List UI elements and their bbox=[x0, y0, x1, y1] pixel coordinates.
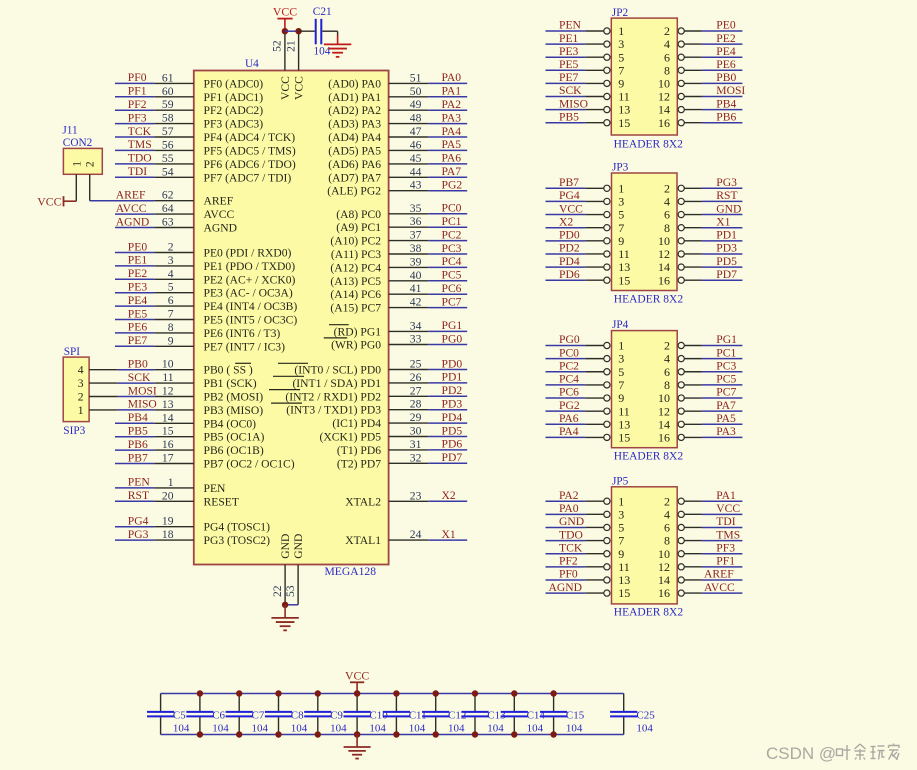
svg-text:PA0: PA0 bbox=[442, 71, 462, 84]
capacitor C6 104 bbox=[186, 694, 229, 735]
svg-text:PB6 (OC1B): PB6 (OC1B) bbox=[204, 444, 264, 457]
U4 pin 32 ((T2) PD7) bbox=[337, 451, 428, 470]
svg-text:41: 41 bbox=[410, 282, 422, 295]
svg-text:PB0: PB0 bbox=[716, 71, 736, 84]
svg-text:10: 10 bbox=[658, 391, 670, 405]
junction dot top of C15 bbox=[550, 690, 556, 696]
svg-text:PE5: PE5 bbox=[559, 58, 579, 71]
JP3 pin 5 bbox=[585, 208, 624, 222]
wire and net label PE7 at JP2 pin 9 bbox=[546, 71, 586, 84]
svg-text:GND: GND bbox=[716, 202, 741, 215]
svg-text:1: 1 bbox=[168, 476, 174, 489]
svg-text:9: 9 bbox=[618, 391, 624, 405]
U4 pin 47 ((AD4) PA4) bbox=[328, 125, 428, 144]
svg-text:PF2 (ADC2): PF2 (ADC2) bbox=[204, 104, 264, 117]
wire and net label TDI bbox=[115, 165, 154, 178]
wire and net label PB6 bbox=[115, 438, 154, 451]
junction dot top of C10 bbox=[354, 690, 360, 696]
wire and net label PB5 bbox=[115, 425, 154, 438]
svg-text:19: 19 bbox=[162, 515, 174, 528]
svg-text:1: 1 bbox=[618, 181, 624, 195]
JP5 pin 16 bbox=[658, 586, 702, 600]
svg-text:PEN: PEN bbox=[128, 476, 151, 489]
svg-text:PC5: PC5 bbox=[442, 269, 462, 282]
svg-text:PB4 (OC0): PB4 (OC0) bbox=[204, 417, 257, 430]
junction dot top of C11 bbox=[393, 690, 399, 696]
svg-text:(A11) PC3: (A11) PC3 bbox=[331, 248, 381, 261]
svg-text:14: 14 bbox=[162, 411, 174, 424]
svg-text:C6: C6 bbox=[212, 709, 225, 721]
JP2 pin 3 bbox=[585, 37, 624, 51]
svg-text:PG4: PG4 bbox=[559, 189, 580, 202]
wire and net label MISO at JP2 pin 13 bbox=[546, 97, 589, 110]
svg-text:3: 3 bbox=[78, 377, 84, 390]
JP5 pin 10 bbox=[658, 547, 702, 561]
wire and net label PE0 bbox=[115, 240, 154, 253]
wire and net label PA6 at JP4 pin 13 bbox=[546, 412, 586, 425]
junction dot bottom of C11 bbox=[393, 731, 399, 737]
svg-text:5: 5 bbox=[168, 281, 174, 294]
svg-text:(AD2) PA2: (AD2) PA2 bbox=[328, 104, 381, 117]
U4 pin 44 ((AD7) PA7) bbox=[328, 165, 428, 184]
U4 pin 27 ((INT2 / RXD1) PD2) bbox=[285, 384, 428, 403]
svg-text:7: 7 bbox=[618, 378, 624, 392]
svg-text:JP5: JP5 bbox=[612, 475, 629, 487]
U4 pin 31 ((T1) PD6) bbox=[337, 438, 428, 457]
junction dot top of C12 bbox=[433, 690, 439, 696]
U4 pin 8 (PE6 (INT6 / T3)) bbox=[154, 321, 280, 340]
svg-text:PB4: PB4 bbox=[128, 411, 148, 424]
junction dot top of C14 bbox=[511, 690, 517, 696]
JP3 pin 10 bbox=[658, 234, 702, 248]
svg-text:RST: RST bbox=[716, 189, 737, 202]
JP5 pin 14 bbox=[658, 573, 702, 587]
JP3 pin 13 bbox=[585, 260, 630, 274]
capacitor C21 bbox=[313, 6, 332, 58]
svg-text:15: 15 bbox=[618, 586, 630, 600]
wire and net label PB4 at JP2 pin 14 bbox=[702, 97, 743, 110]
JP4 pin 13 bbox=[585, 417, 630, 431]
svg-text:6: 6 bbox=[168, 294, 174, 307]
JP2 pin 5 bbox=[585, 50, 624, 64]
svg-text:PE6: PE6 bbox=[128, 321, 148, 334]
svg-text:PC1: PC1 bbox=[442, 215, 462, 228]
svg-text:SCK: SCK bbox=[128, 371, 151, 384]
J11 pin 1 bbox=[70, 161, 83, 202]
wire and net label PF0 at JP5 pin 13 bbox=[546, 568, 586, 581]
U4 pin 36 ((A9) PC1) bbox=[336, 215, 428, 234]
svg-text:15: 15 bbox=[162, 425, 174, 438]
svg-text:(RD) PG1: (RD) PG1 bbox=[334, 325, 382, 338]
svg-text:PF1: PF1 bbox=[716, 555, 735, 568]
svg-text:PG4 (TOSC1): PG4 (TOSC1) bbox=[204, 521, 271, 534]
svg-text:PC7: PC7 bbox=[716, 386, 736, 399]
svg-text:JP3: JP3 bbox=[612, 161, 629, 173]
svg-text:52: 52 bbox=[271, 40, 284, 52]
svg-text:PD2: PD2 bbox=[559, 242, 580, 255]
wire and net label TDO at JP5 pin 7 bbox=[546, 528, 586, 541]
wire and net label TDO bbox=[115, 152, 154, 165]
JP4 pin 2 bbox=[664, 339, 702, 353]
wire and net label PA3 bbox=[428, 111, 467, 124]
svg-text:MOSI: MOSI bbox=[128, 384, 157, 397]
svg-text:PE3 (AC- / OC3A): PE3 (AC- / OC3A) bbox=[204, 287, 293, 300]
junction dot top of C7 bbox=[236, 690, 242, 696]
svg-text:12: 12 bbox=[162, 385, 174, 398]
svg-text:PF1 (ADC1): PF1 (ADC1) bbox=[204, 91, 264, 104]
JP5 pin 3 bbox=[585, 507, 624, 521]
svg-text:PA6: PA6 bbox=[559, 412, 579, 425]
overline for SS on PB0 bbox=[235, 362, 251, 364]
svg-text:MISO: MISO bbox=[128, 398, 157, 411]
wire and net label PE2 bbox=[115, 267, 154, 280]
svg-text:(INT0 / SCL) PD0: (INT0 / SCL) PD0 bbox=[294, 364, 381, 377]
svg-text:1: 1 bbox=[618, 24, 624, 38]
svg-text:16: 16 bbox=[658, 273, 670, 287]
JP5 pin 15 bbox=[585, 586, 630, 600]
wire and net label PB6 at JP2 pin 16 bbox=[702, 110, 743, 123]
wire and net label PA7 bbox=[428, 165, 467, 178]
junction dot pin21 bbox=[295, 28, 301, 34]
U4 pin 2 (PE0 (PDI / RXD0)) bbox=[154, 241, 291, 260]
wire and net label GND at JP3 pin 6 bbox=[702, 202, 743, 215]
U4 pin 23 (XTAL2) bbox=[345, 489, 428, 508]
svg-text:37: 37 bbox=[410, 229, 422, 242]
wire and net label PA4 at JP4 pin 15 bbox=[546, 425, 586, 438]
svg-text:PC3: PC3 bbox=[716, 359, 736, 372]
junction dot bottom of C9 bbox=[315, 731, 321, 737]
svg-text:49: 49 bbox=[410, 98, 422, 111]
svg-text:6: 6 bbox=[664, 365, 670, 379]
svg-text:24: 24 bbox=[410, 528, 422, 541]
wire and net label PD6 bbox=[428, 438, 467, 451]
svg-text:104: 104 bbox=[487, 723, 504, 735]
wire and net label PE4 bbox=[115, 294, 154, 307]
svg-text:104: 104 bbox=[330, 723, 347, 735]
svg-text:PC6: PC6 bbox=[442, 282, 462, 295]
U4 pin 10 (PB0 ( SS )) bbox=[154, 358, 253, 377]
svg-text:PD7: PD7 bbox=[716, 268, 737, 281]
junction dot bottom of C10 bbox=[354, 731, 360, 737]
svg-text:10: 10 bbox=[658, 547, 670, 561]
JP3 pin 1 bbox=[585, 181, 624, 195]
wire and net label PD1 bbox=[428, 371, 467, 384]
U4 pin 13 (PB3 (MISO)) bbox=[154, 398, 263, 417]
U4 pin 46 ((AD5) PA5) bbox=[328, 138, 428, 157]
svg-text:TMS: TMS bbox=[128, 138, 152, 151]
svg-text:PF5 (ADC5 / TMS): PF5 (ADC5 / TMS) bbox=[204, 144, 296, 157]
svg-text:23: 23 bbox=[410, 489, 422, 502]
svg-text:10: 10 bbox=[162, 358, 174, 371]
U4 pin 4 (PE2 (AC+ / XCK0)) bbox=[154, 267, 295, 286]
U4 pin 57 (PF4 (ADC4 / TCK)) bbox=[154, 125, 295, 144]
ground symbol below U4 bbox=[271, 605, 298, 631]
wire and net label PF1 bbox=[115, 85, 154, 98]
watermark CSDN bbox=[766, 744, 899, 764]
JP4 pin 4 bbox=[664, 352, 702, 366]
wire and net label AREF bbox=[90, 189, 155, 202]
overline INT0 bbox=[278, 362, 308, 364]
svg-text:58: 58 bbox=[162, 112, 174, 125]
svg-text:AVCC: AVCC bbox=[704, 581, 735, 594]
svg-text:PG1: PG1 bbox=[716, 333, 737, 346]
wire and net label X1 at JP3 pin 8 bbox=[702, 215, 743, 228]
svg-text:J11: J11 bbox=[62, 125, 77, 137]
wire and net label PE5 bbox=[115, 307, 154, 320]
connector JP5 HEADER 8X2 body bbox=[612, 487, 678, 604]
svg-text:20: 20 bbox=[162, 489, 174, 502]
svg-text:PEN: PEN bbox=[559, 19, 582, 32]
svg-text:45: 45 bbox=[410, 152, 422, 165]
svg-text:14: 14 bbox=[658, 260, 670, 274]
svg-text:PA3: PA3 bbox=[716, 425, 736, 438]
svg-text:PA7: PA7 bbox=[442, 165, 462, 178]
svg-text:14: 14 bbox=[658, 573, 670, 587]
svg-text:PB7: PB7 bbox=[128, 451, 148, 464]
U4 pin 22 (GND) vertical bbox=[271, 534, 292, 605]
svg-text:PA5: PA5 bbox=[716, 412, 736, 425]
U4 pin 48 ((AD3) PA3) bbox=[328, 112, 428, 131]
JP3 pin 11 bbox=[585, 247, 630, 261]
svg-text:2: 2 bbox=[664, 339, 670, 353]
wire and net label PE1 at JP2 pin 3 bbox=[546, 32, 586, 45]
svg-text:SPI: SPI bbox=[64, 346, 81, 358]
svg-text:8: 8 bbox=[664, 63, 670, 77]
svg-text:56: 56 bbox=[162, 138, 174, 151]
svg-text:PD7: PD7 bbox=[442, 451, 463, 464]
svg-text:28: 28 bbox=[410, 398, 422, 411]
svg-text:12: 12 bbox=[658, 560, 670, 574]
svg-text:PG2: PG2 bbox=[442, 179, 463, 192]
wire and net label PC5 bbox=[428, 269, 467, 282]
connector J11 CON2 body bbox=[63, 148, 102, 174]
svg-text:26: 26 bbox=[410, 371, 422, 384]
junction dot VCC into bus bbox=[354, 690, 360, 696]
JP5 pin 2 bbox=[664, 494, 702, 508]
U4 pin 9 (PE7 (INT7 / IC3)) bbox=[154, 334, 285, 353]
junction dot bottom of C13 bbox=[472, 731, 478, 737]
wire and net label AREF at JP5 pin 14 bbox=[702, 568, 743, 581]
svg-text:PG0: PG0 bbox=[559, 333, 580, 346]
svg-text:PE4 (INT4 / OC3B): PE4 (INT4 / OC3B) bbox=[204, 300, 298, 313]
connector JP2 HEADER 8X2 body bbox=[611, 18, 677, 135]
wire and net label TMS bbox=[115, 138, 154, 151]
svg-text:PE7: PE7 bbox=[559, 71, 579, 84]
svg-text:SCK: SCK bbox=[559, 84, 582, 97]
svg-text:30: 30 bbox=[410, 425, 422, 438]
U4 pin 14 (PB4 (OC0)) bbox=[154, 411, 256, 430]
svg-text:(WR) PG0: (WR) PG0 bbox=[331, 339, 381, 352]
svg-text:50: 50 bbox=[410, 85, 422, 98]
wire and net label PA7 at JP4 pin 12 bbox=[702, 399, 743, 412]
wire and net label PC6 at JP4 pin 9 bbox=[546, 386, 586, 399]
svg-text:5: 5 bbox=[618, 208, 624, 222]
wire and net label MOSI bbox=[118, 384, 157, 397]
wire and net label PD0 at JP3 pin 9 bbox=[546, 229, 586, 242]
svg-text:104: 104 bbox=[369, 723, 386, 735]
svg-text:16: 16 bbox=[658, 431, 670, 445]
svg-text:7: 7 bbox=[618, 63, 624, 77]
svg-text:16: 16 bbox=[658, 586, 670, 600]
svg-text:55: 55 bbox=[162, 152, 174, 165]
svg-text:PB5 (OC1A): PB5 (OC1A) bbox=[204, 431, 265, 444]
svg-text:PE2: PE2 bbox=[128, 267, 148, 280]
wire and net label MOSI at JP2 pin 12 bbox=[702, 84, 746, 97]
svg-text:13: 13 bbox=[618, 573, 630, 587]
svg-text:PE6 (INT6 / T3): PE6 (INT6 / T3) bbox=[204, 327, 281, 340]
svg-text:104: 104 bbox=[527, 723, 544, 735]
svg-text:2: 2 bbox=[664, 494, 670, 508]
svg-text:PE1: PE1 bbox=[559, 32, 579, 45]
svg-text:C25: C25 bbox=[636, 709, 655, 721]
wire and net label PB4 bbox=[115, 411, 154, 424]
capacitor C13 104 bbox=[461, 694, 506, 735]
wire and net label PE4 at JP2 pin 6 bbox=[702, 45, 743, 58]
wire pin52 to pin21 bbox=[285, 30, 299, 32]
svg-text:62: 62 bbox=[162, 189, 174, 202]
wire and net label PD1 at JP3 pin 10 bbox=[702, 229, 743, 242]
JP5 pin 11 bbox=[585, 560, 630, 574]
svg-text:3: 3 bbox=[618, 352, 624, 366]
svg-text:7: 7 bbox=[618, 534, 624, 548]
svg-text:PE2: PE2 bbox=[716, 32, 736, 45]
wire and net label PG4 bbox=[115, 515, 154, 528]
JP4 pin 5 bbox=[585, 365, 624, 379]
U4 pin 30 ((XCK1) PD5) bbox=[319, 425, 428, 444]
U4 pin 34 ((RD) PG1) bbox=[334, 319, 429, 338]
svg-text:PE0: PE0 bbox=[128, 240, 148, 253]
svg-text:2: 2 bbox=[664, 181, 670, 195]
svg-text:10: 10 bbox=[658, 234, 670, 248]
svg-text:10: 10 bbox=[658, 77, 670, 91]
svg-text:AREF: AREF bbox=[116, 189, 146, 202]
svg-text:104: 104 bbox=[566, 723, 583, 735]
JP2 pin 8 bbox=[664, 63, 702, 77]
svg-text:8: 8 bbox=[664, 378, 670, 392]
JP3 pin 14 bbox=[658, 260, 702, 274]
svg-text:(INT2 / RXD1) PD2: (INT2 / RXD1) PD2 bbox=[285, 390, 381, 403]
U4 pin 28 ((INT3 / TXD1) PD3) bbox=[286, 398, 428, 417]
svg-text:PD5: PD5 bbox=[442, 424, 463, 437]
wire and net label PD4 bbox=[428, 411, 467, 424]
svg-text:(A9) PC1: (A9) PC1 bbox=[336, 221, 381, 234]
svg-text:13: 13 bbox=[618, 417, 630, 431]
svg-text:AVCC: AVCC bbox=[116, 202, 147, 215]
wire and net label PD4 at JP3 pin 13 bbox=[546, 255, 586, 268]
wire and net label PB0 bbox=[118, 358, 154, 371]
svg-text:6: 6 bbox=[664, 521, 670, 535]
svg-text:5: 5 bbox=[618, 365, 624, 379]
svg-text:HEADER 8X2: HEADER 8X2 bbox=[614, 451, 684, 463]
U4 pin 6 (PE4 (INT4 / OC3B)) bbox=[154, 294, 297, 313]
svg-text:(AD1) PA1: (AD1) PA1 bbox=[328, 91, 381, 104]
U4 pin 55 (PF6 (ADC6 / TDO)) bbox=[154, 152, 296, 171]
svg-text:(IC1) PD4: (IC1) PD4 bbox=[332, 417, 381, 430]
U4 pin 45 ((AD6) PA6) bbox=[328, 152, 428, 171]
svg-text:PB6: PB6 bbox=[128, 438, 148, 451]
svg-text:PB1 (SCK): PB1 (SCK) bbox=[204, 377, 257, 390]
svg-text:PF0: PF0 bbox=[128, 71, 147, 84]
wire and net label PD6 at JP3 pin 15 bbox=[546, 268, 586, 281]
wire and net label PC7 at JP4 pin 10 bbox=[702, 386, 743, 399]
wire and net label SCK bbox=[118, 371, 154, 384]
svg-text:(AD0) PA0: (AD0) PA0 bbox=[328, 77, 381, 90]
svg-text:4: 4 bbox=[168, 267, 174, 280]
svg-text:(T2) PD7: (T2) PD7 bbox=[337, 457, 381, 470]
svg-text:C5: C5 bbox=[173, 709, 186, 721]
wire and net label PE1 bbox=[115, 254, 154, 267]
svg-text:(ALE) PG2: (ALE) PG2 bbox=[327, 185, 381, 198]
svg-text:MISO: MISO bbox=[559, 97, 588, 110]
svg-text:1: 1 bbox=[618, 339, 624, 353]
svg-text:1: 1 bbox=[78, 404, 84, 417]
svg-text:5: 5 bbox=[618, 50, 624, 64]
wire and net label MISO bbox=[118, 398, 157, 411]
svg-text:2: 2 bbox=[78, 391, 84, 404]
JP3 pin 9 bbox=[585, 234, 624, 248]
ground symbol near C21 bbox=[324, 35, 351, 57]
svg-text:15: 15 bbox=[618, 273, 630, 287]
junction dot bottom of C15 bbox=[550, 731, 556, 737]
svg-text:PE7 (INT7 / IC3): PE7 (INT7 / IC3) bbox=[204, 340, 286, 353]
SPI pin 1 bbox=[78, 404, 118, 417]
svg-text:12: 12 bbox=[658, 247, 670, 261]
wire and net label PD5 at JP3 pin 14 bbox=[702, 255, 743, 268]
svg-text:11: 11 bbox=[618, 404, 630, 418]
U4 pin 21 (VCC) vertical bbox=[284, 31, 305, 100]
svg-text:61: 61 bbox=[162, 71, 174, 84]
capacitor C5 104 bbox=[147, 694, 190, 735]
svg-text:2: 2 bbox=[84, 161, 97, 167]
wire and net label PE0 at JP2 pin 2 bbox=[702, 19, 743, 32]
svg-text:PE3: PE3 bbox=[559, 45, 579, 58]
svg-text:GND: GND bbox=[292, 534, 305, 559]
U4 pin 26 ((INT1 / SDA) PD1) bbox=[292, 371, 428, 390]
svg-text:PF3: PF3 bbox=[716, 541, 735, 554]
wire and net label PE2 at JP2 pin 4 bbox=[702, 32, 743, 45]
svg-text:RST: RST bbox=[128, 489, 149, 502]
U4 pin 58 (PF3 (ADC3)) bbox=[154, 112, 263, 131]
svg-text:PF6 (ADC6 / TDO): PF6 (ADC6 / TDO) bbox=[204, 158, 296, 171]
svg-text:PC7: PC7 bbox=[442, 295, 462, 308]
svg-text:XTAL2: XTAL2 bbox=[345, 495, 381, 508]
wire and net label PF3 at JP5 pin 10 bbox=[702, 541, 743, 554]
wire and net label PD3 at JP3 pin 12 bbox=[702, 242, 743, 255]
junction dot top of C13 bbox=[472, 690, 478, 696]
svg-text:104: 104 bbox=[252, 723, 269, 735]
svg-text:SIP3: SIP3 bbox=[63, 425, 85, 437]
U4 pin 52 (VCC) vertical bbox=[271, 31, 292, 100]
svg-text:(INT1 / SDA) PD1: (INT1 / SDA) PD1 bbox=[292, 377, 381, 390]
svg-text:4: 4 bbox=[664, 507, 670, 521]
svg-text:PE1 (PDO / TXD0): PE1 (PDO / TXD0) bbox=[204, 260, 296, 273]
svg-text:PG2: PG2 bbox=[559, 399, 580, 412]
wire and net label PA1 bbox=[428, 85, 467, 98]
svg-text:63: 63 bbox=[162, 216, 174, 229]
svg-text:PF3 (ADC3): PF3 (ADC3) bbox=[204, 118, 264, 131]
wire and net label TDI at JP5 pin 6 bbox=[702, 515, 743, 528]
svg-text:TDI: TDI bbox=[716, 515, 735, 528]
svg-text:(AD6) PA6: (AD6) PA6 bbox=[328, 158, 381, 171]
svg-text:(AD3) PA3: (AD3) PA3 bbox=[328, 118, 381, 131]
svg-text:9: 9 bbox=[618, 547, 624, 561]
svg-text:PF7 (ADC7 / TDI): PF7 (ADC7 / TDI) bbox=[204, 171, 292, 184]
JP4 pin 6 bbox=[664, 365, 702, 379]
svg-text:PE5 (INT5 / OC3C): PE5 (INT5 / OC3C) bbox=[204, 314, 298, 327]
svg-text:PG4: PG4 bbox=[128, 515, 149, 528]
U4 pin 59 (PF2 (ADC2)) bbox=[154, 98, 263, 117]
U4 pin 61 (PF0 (ADC0)) bbox=[154, 71, 263, 90]
